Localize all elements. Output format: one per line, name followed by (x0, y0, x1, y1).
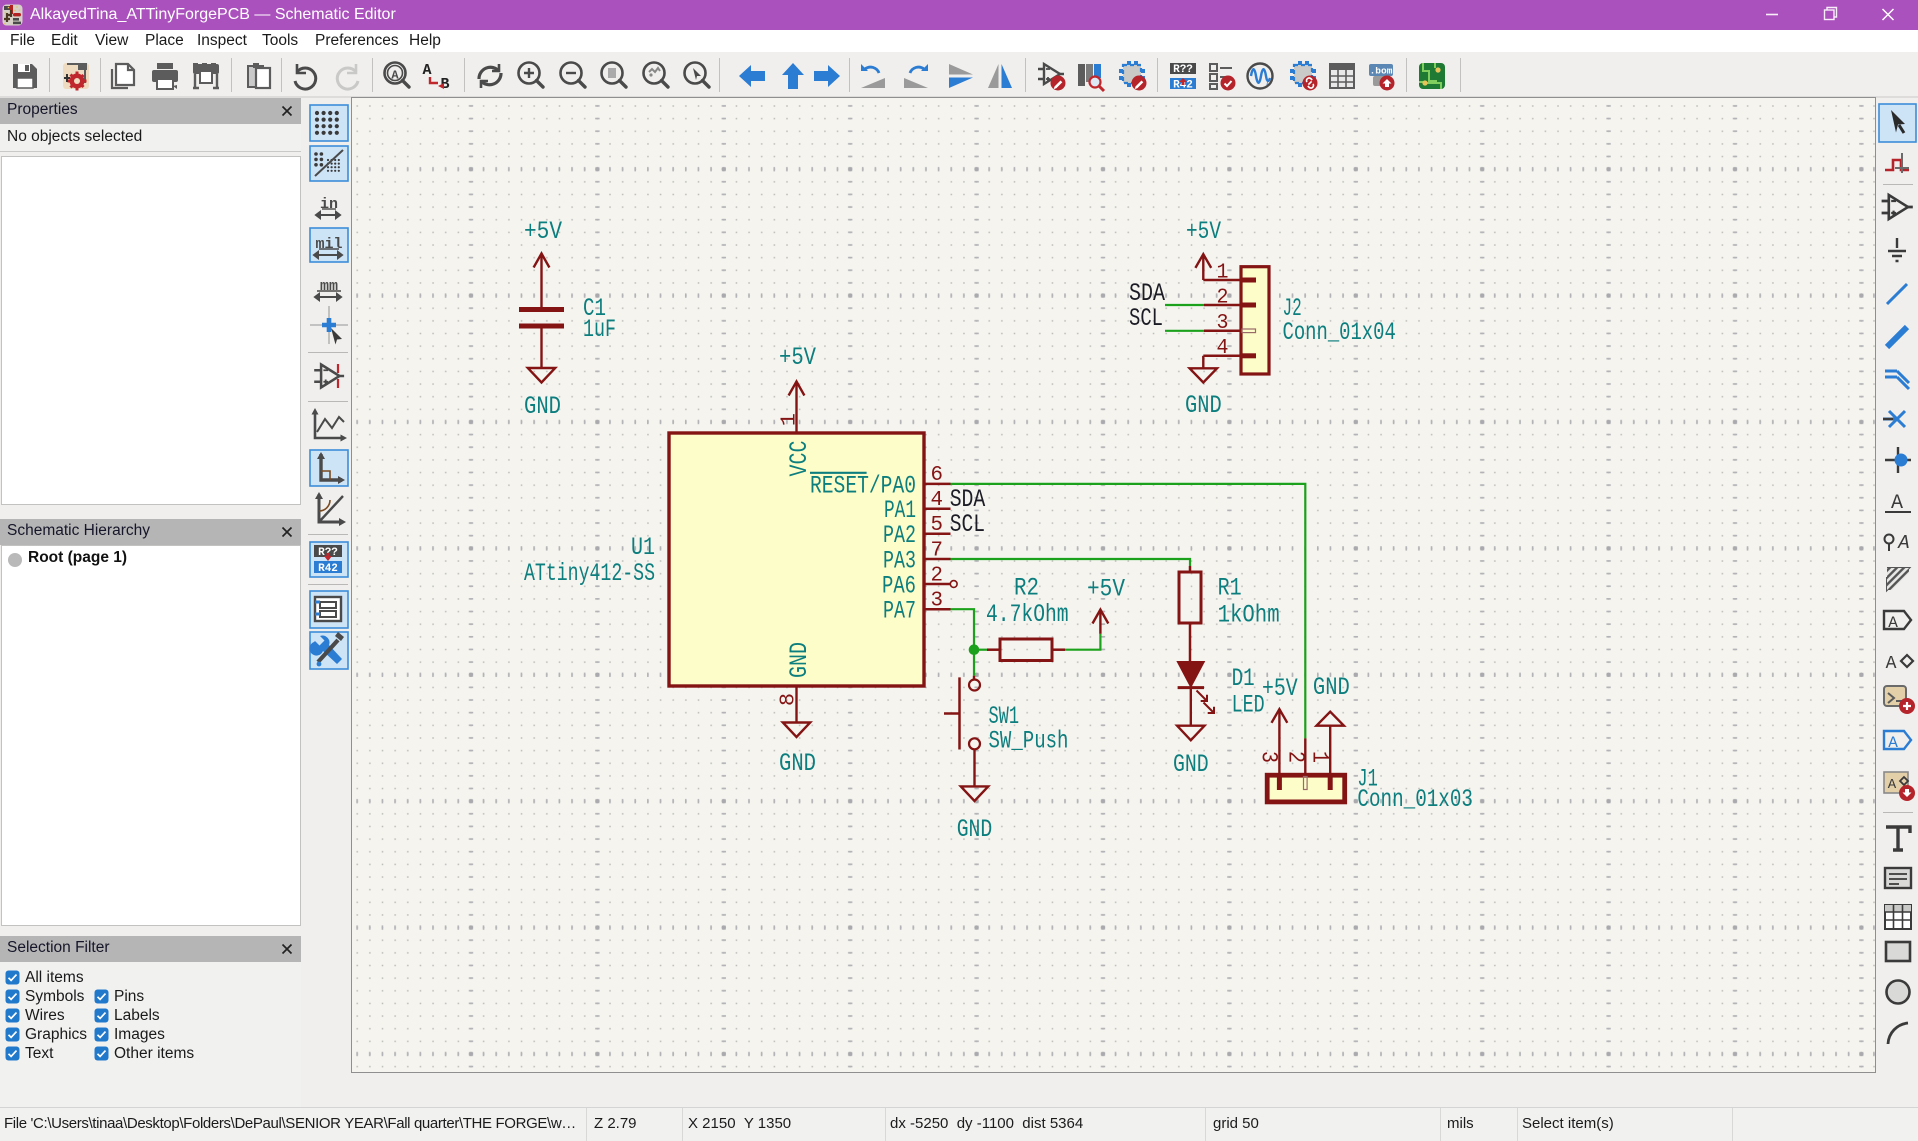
status bar (0, 1107, 1918, 1140)
place arc tool (1888, 1023, 1908, 1044)
J2 pin 4 with GND (1203, 355, 1241, 358)
svg-text:A: A (1888, 777, 1897, 793)
refresh icon (479, 64, 501, 88)
place text box tool (1885, 868, 1911, 888)
J1 pin bars (1277, 777, 1282, 791)
annotate icon (1170, 63, 1196, 92)
place power port tool (1888, 238, 1906, 261)
svg-text:4.7kOhm: 4.7kOhm (986, 600, 1069, 629)
svg-text:A: A (1897, 532, 1909, 554)
svg-text:GND: GND (957, 815, 993, 844)
right tool strip (1877, 98, 1918, 1107)
svg-text:+5V: +5V (779, 343, 816, 372)
grid override tool (active) (310, 146, 348, 181)
U1 pin 2 unconnected circle (950, 581, 957, 588)
svg-text:SW_Push: SW_Push (989, 727, 1069, 756)
plot icon (193, 63, 219, 88)
mirror vertical icon (949, 64, 973, 88)
power +5V symbol (795, 382, 797, 434)
svg-text:7: 7 (931, 539, 944, 562)
U1 pin 2 (PA6) (926, 583, 951, 586)
symbol fields table icon (1330, 64, 1354, 88)
find replace icon (422, 62, 449, 93)
preferences tool (active) (310, 632, 348, 669)
svg-text:6: 6 (931, 464, 944, 487)
pcb editor icon (1419, 63, 1445, 89)
svg-text:1kOhm: 1kOhm (1218, 600, 1280, 629)
place symbol tool (1882, 195, 1913, 219)
undo icon (295, 64, 316, 89)
place rectangle tool (1886, 942, 1910, 961)
svg-text:1: 1 (779, 413, 802, 426)
U1 pin 7 (PA3) (926, 558, 951, 561)
show hidden pins tool (314, 365, 344, 388)
svg-text:A: A (422, 62, 431, 79)
left tool strip (302, 98, 352, 698)
left panel (0, 98, 302, 1107)
power GND symbol (783, 723, 810, 738)
print icon (152, 63, 178, 89)
select tool (active) (1879, 104, 1916, 142)
place wire tool (1887, 284, 1907, 304)
zoom in icon (519, 63, 544, 88)
zoom auto icon (385, 63, 410, 88)
wire pin6 to J1 pin2 (951, 484, 1306, 739)
grid dots (352, 98, 1875, 1072)
U1 pin 5 (PA2) (926, 532, 951, 535)
svg-text:1: 1 (1217, 261, 1229, 284)
svg-text:LED: LED (1232, 691, 1265, 720)
connector J2 (1241, 267, 1269, 374)
svg-text:8: 8 (778, 693, 801, 706)
selection filter row (5, 1046, 20, 1061)
page settings icon (63, 63, 89, 91)
U1 pin 4 (PA1) (926, 507, 951, 510)
any angle wire mode tool (319, 494, 343, 522)
mirror horizontal icon (988, 64, 1012, 88)
nav back icon (739, 65, 765, 87)
svg-text:GND: GND (1185, 391, 1222, 420)
place circle tool (1887, 981, 1910, 1004)
zoom objects icon (644, 63, 669, 88)
resistor R1 (1189, 566, 1192, 572)
svg-text:A: A (1888, 614, 1898, 632)
svg-text:GND: GND (1313, 673, 1350, 702)
app icon (2, 4, 23, 26)
place sheet pin tool (1884, 731, 1911, 749)
wire R2 to +5V (1065, 634, 1100, 650)
wire pin3/PA7 to junction and SW1 (951, 609, 975, 676)
svg-text:D1: D1 (1232, 664, 1255, 693)
window restore button (1825, 10, 1835, 20)
node junction (969, 644, 980, 655)
place text tool (1886, 827, 1910, 850)
footprint editor icon (1119, 61, 1147, 91)
switch SW1 (973, 676, 975, 680)
rotate ccw icon (861, 64, 885, 88)
U1 pin 3 (PA7) (926, 608, 951, 611)
svg-text:2: 2 (931, 564, 944, 587)
place bus entry tool (1885, 371, 1909, 389)
bom icon (1369, 64, 1395, 91)
U1 GND pin 8 (795, 686, 797, 723)
svg-text:4: 4 (1217, 337, 1229, 360)
connector J1 (1267, 775, 1345, 802)
svg-text:GND: GND (1173, 750, 1209, 779)
svg-text:+5V: +5V (1262, 674, 1298, 703)
U1 symbol body (669, 433, 924, 686)
assign footprints icon (1290, 61, 1318, 91)
svg-text:2: 2 (1217, 286, 1229, 309)
annotate automatically tool (active) (310, 542, 348, 577)
power GND symbol (961, 786, 988, 801)
svg-text:GND: GND (779, 749, 816, 778)
selection filter row (5, 970, 20, 985)
svg-text:R??: R?? (1173, 64, 1193, 76)
copy schematic icon (112, 64, 134, 88)
svg-text:R1: R1 (1218, 574, 1242, 603)
erc icon (1210, 64, 1236, 91)
svg-text:GND: GND (785, 642, 814, 678)
save icon (13, 64, 37, 88)
title bar (0, 0, 1918, 30)
nav up icon (782, 63, 804, 89)
cursor shape tool (310, 306, 348, 344)
power GND symbol (1177, 726, 1204, 741)
svg-text:mm: mm (320, 278, 338, 295)
power +5V symbol (1099, 610, 1101, 634)
place rule area tool (1887, 568, 1909, 590)
svg-text:+5V: +5V (1186, 217, 1221, 246)
svg-text:.bom: .bom (1370, 66, 1393, 77)
svg-text:mil: mil (315, 236, 342, 253)
svg-text:R42: R42 (318, 563, 338, 575)
svg-text:SCL: SCL (950, 510, 985, 539)
svg-text:5: 5 (931, 514, 944, 537)
grid visibility tool (active) (310, 105, 348, 141)
power +5V symbol (540, 254, 542, 308)
selection filter row (5, 989, 20, 1004)
place global label tool (1884, 611, 1911, 629)
paste icon (248, 63, 270, 88)
root page entry (7, 552, 23, 568)
zoom out icon (561, 63, 586, 88)
redo icon (disabled) (337, 64, 358, 89)
svg-text:ATtiny412-SS: ATtiny412-SS (524, 559, 655, 588)
svg-text:3: 3 (931, 590, 944, 613)
show graphics tool (315, 411, 344, 438)
LED D1 (1178, 662, 1204, 686)
svg-text:+5V: +5V (1087, 575, 1125, 604)
power GND symbol (528, 368, 555, 383)
svg-text:R2: R2 (1014, 573, 1039, 602)
U1 pin 6 (RESET/PA0) (926, 483, 951, 486)
svg-text:3: 3 (1217, 312, 1229, 335)
dialog preferences tool (active) (310, 591, 348, 628)
selection filter row (5, 1008, 20, 1023)
svg-text:A: A (1886, 654, 1897, 674)
LED light arrows (1197, 691, 1215, 714)
Selection Filter panel header (0, 936, 301, 962)
wire junction to R2 (974, 649, 987, 651)
selection filter row (5, 1027, 20, 1042)
nav forward icon (814, 65, 840, 87)
svg-text:+5V: +5V (524, 217, 562, 246)
svg-text:Conn_01x04: Conn_01x04 (1283, 318, 1396, 347)
svg-text:4: 4 (931, 489, 944, 512)
rotate cw icon (904, 64, 928, 88)
symbol editor icon (1038, 64, 1066, 91)
J2 pin bars (1242, 278, 1256, 283)
Properties panel header (0, 98, 301, 124)
svg-text:3: 3 (1256, 751, 1282, 763)
highlight net tool (1885, 160, 1909, 170)
HV wire mode tool (active) (310, 450, 348, 486)
place bus tool (1887, 327, 1907, 347)
svg-text:GND: GND (524, 392, 561, 421)
wire pin7/PA3 to R1 (951, 559, 1191, 566)
svg-text:Conn_01x03: Conn_01x03 (1357, 785, 1473, 814)
zoom selection icon (685, 63, 710, 88)
svg-text:A: A (1888, 734, 1898, 752)
simulator icon (1248, 64, 1273, 89)
window close button (1883, 9, 1894, 20)
svg-text:PA7: PA7 (883, 597, 916, 626)
place no connect tool (1883, 411, 1905, 427)
zoom fit page icon (602, 63, 627, 88)
J1 pin 2 stub (1304, 738, 1306, 775)
J1 pin 1 with GND (flipped) (1317, 712, 1344, 726)
svg-text:2: 2 (1283, 751, 1309, 763)
Schematic Hierarchy panel header (0, 519, 301, 545)
svg-text:1uF: 1uF (583, 315, 616, 344)
svg-text:1: 1 (1307, 751, 1333, 763)
svg-text:SCL: SCL (1129, 304, 1163, 333)
power +5V symbol (1202, 254, 1204, 280)
power +5V symbol (1278, 709, 1280, 775)
main toolbar (0, 52, 1918, 98)
import sheet pin tool (1884, 772, 1908, 793)
resistor R2 (987, 648, 1000, 651)
place hierarchical sheet tool (1884, 686, 1906, 706)
library browser icon (1078, 64, 1104, 91)
schematic canvas (351, 97, 1876, 1073)
place table tool (1885, 905, 1911, 929)
place junction tool (1885, 447, 1911, 473)
menu bar (0, 30, 1918, 52)
window minimize button (1758, 0, 1918, 30)
power GND symbol (1190, 368, 1217, 382)
svg-text:7: 7 (1265, 79, 1270, 88)
units mils tool (active) (310, 228, 348, 262)
svg-text:U1: U1 (631, 533, 655, 562)
